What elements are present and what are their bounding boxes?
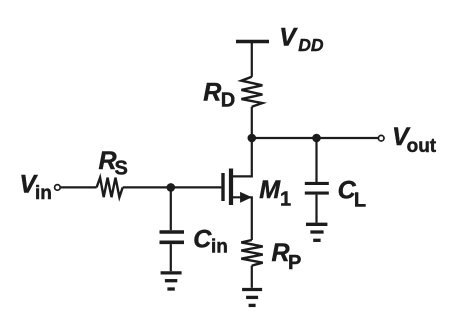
svg-text:M: M [259,176,281,204]
svg-text:R: R [203,78,221,106]
svg-text:out: out [407,136,437,157]
svg-text:V: V [279,23,298,51]
svg-text:L: L [354,189,366,211]
svg-text:1: 1 [280,189,291,211]
svg-text:C: C [193,225,212,253]
svg-text:D: D [221,90,235,112]
svg-text:in: in [35,183,52,204]
svg-text:R: R [272,239,290,267]
svg-text:DD: DD [298,35,324,55]
svg-text:P: P [288,252,301,274]
svg-text:S: S [115,157,128,179]
svg-text:in: in [211,236,228,257]
